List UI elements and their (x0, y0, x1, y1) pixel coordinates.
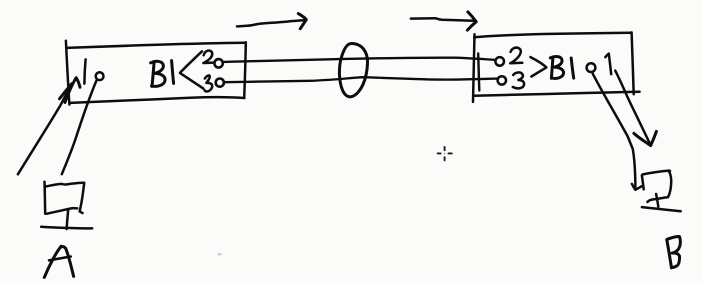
arrow (top-left, pointing right) (237, 14, 306, 29)
pin 2 terminal (left box) (214, 59, 222, 67)
label B1 (right box) (550, 57, 573, 79)
cable coil (ellipse over wires) (339, 44, 367, 97)
crosshair cursor (438, 147, 452, 161)
pin 1 terminal (left box) (96, 72, 104, 80)
faint smudge dot (217, 253, 222, 256)
pin 2 terminal (right box) (495, 57, 504, 66)
line pin1-left down to monitor A (62, 80, 97, 174)
pin 3 terminal (left box) (216, 79, 224, 87)
pin 2 label (right box) (510, 48, 522, 64)
monitor B (642, 171, 681, 212)
arrow from monitor A up to left box pin 1 (18, 78, 80, 175)
pin 1 terminal (right box) (587, 63, 596, 72)
pin 3 label (left box) (205, 75, 213, 91)
arrow into monitor B (615, 71, 656, 146)
wire pin3-left to pin3-right (bottom wire) (224, 77, 497, 82)
pin 2 label (left box) (203, 51, 213, 63)
monitor A (41, 182, 92, 229)
pin 1 label (left box) (84, 59, 85, 83)
wire pin2-left to pin2-right (top wire) (223, 58, 495, 62)
left box (66, 41, 246, 105)
arrow (top-right, pointing right) (411, 12, 476, 30)
right box (473, 32, 640, 102)
label B (bottom right) (667, 237, 681, 268)
pin 1 label (right box) (605, 54, 611, 75)
splitter > (right box) (531, 57, 547, 76)
splitter < (left box) (180, 51, 204, 88)
label B1 (left box) (151, 61, 174, 87)
link line pin1-right to monitor B (593, 74, 642, 190)
label A (bottom left) (44, 246, 73, 277)
pin 3 terminal (right box) (498, 76, 506, 84)
pin 3 label (right box) (513, 72, 524, 88)
